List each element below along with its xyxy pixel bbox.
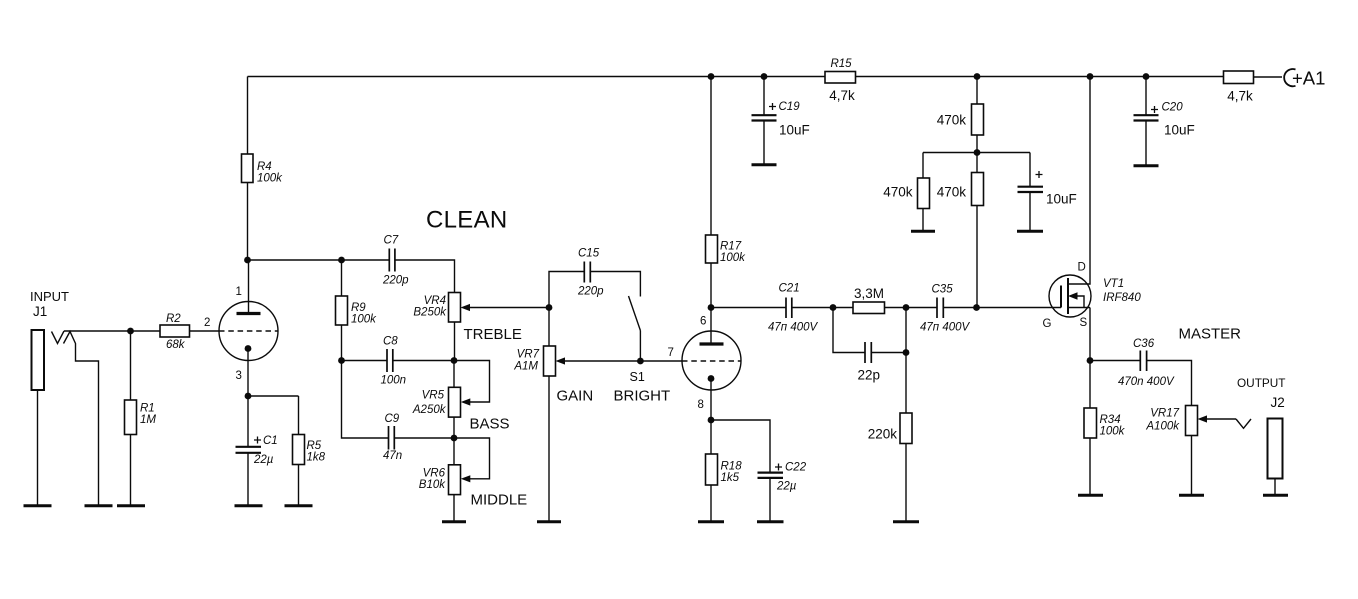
wire: junction down to R1	[130, 331, 132, 400]
resistor R2	[160, 313, 190, 351]
resistor R34	[1084, 408, 1126, 438]
wire: VR7 to ground	[548, 376, 550, 521]
node: 22p right junction	[903, 349, 910, 356]
svg-text:47п 400V: 47п 400V	[768, 322, 819, 334]
wire: C9 row left leg	[342, 361, 389, 439]
svg-text:TREBLE: TREBLE	[464, 326, 522, 343]
connector output plug V	[1236, 419, 1251, 428]
wire: anode node to C7	[248, 259, 390, 261]
wire: C20 to ground	[1145, 121, 1147, 166]
ground (C20)	[1134, 164, 1159, 167]
node: rail junction to R17	[708, 73, 715, 80]
wire: input signal to grid	[64, 330, 219, 332]
svg-text:22p: 22p	[858, 368, 881, 383]
node: C8 row left junction	[338, 357, 345, 364]
wire: C15 branch from VR7 top	[549, 272, 584, 308]
capacitor 10uF (bias)	[1018, 171, 1077, 207]
wire: 10uF to ground	[1029, 192, 1031, 231]
resistor R5	[293, 435, 326, 465]
svg-text:BRIGHT: BRIGHT	[614, 388, 671, 405]
svg-text:A1M: A1M	[513, 361, 538, 373]
ground (R1)	[117, 504, 145, 507]
wire: 22p to 220k node	[871, 352, 906, 354]
svg-text:J2: J2	[1271, 395, 1285, 410]
wire: C21 to 3,3M	[792, 307, 853, 309]
wire: S1 node to tube 2 grid	[640, 360, 682, 362]
VR7 wiper arrow from S1 node	[565, 360, 641, 362]
wire: cathode node to R5	[248, 395, 299, 397]
wire: VR6 top lead	[453, 438, 455, 465]
wire: R5 to ground	[298, 465, 300, 506]
svg-text:B250k: B250k	[413, 307, 447, 319]
svg-text:470k: 470k	[883, 185, 913, 200]
tube V2 grid (dashed)	[682, 360, 741, 362]
node: 3,3M left junction	[830, 304, 837, 311]
svg-text:47п 400V: 47п 400V	[920, 322, 971, 334]
svg-text:INPUT: INPUT	[30, 289, 69, 304]
svg-text:MASTER: MASTER	[1179, 326, 1242, 343]
wire: rail to +A1 terminal	[1254, 76, 1283, 78]
svg-text:R17: R17	[720, 241, 742, 253]
wire: C22 to ground	[769, 478, 771, 521]
svg-text:A250k: A250k	[412, 404, 447, 416]
wire: R34 to ground	[1089, 438, 1091, 495]
svg-text:R15: R15	[830, 58, 852, 70]
svg-text:C22: C22	[785, 462, 807, 474]
wire: rail to top 470k	[976, 77, 978, 105]
capacitor C21	[768, 283, 819, 334]
resistor R17	[706, 235, 747, 264]
capacitor 22p	[858, 342, 881, 383]
wire: VR17 to ground	[1191, 436, 1193, 495]
svg-text:CLEAN: CLEAN	[426, 207, 508, 234]
svg-text:G: G	[1043, 318, 1052, 330]
wire: VR4 bottom to C8 row	[454, 322, 456, 361]
node: S1 junction	[637, 358, 644, 365]
wire: anode 2 to C21	[711, 307, 786, 309]
svg-text:C8: C8	[383, 336, 398, 348]
VR6 wiper tie loop	[454, 438, 490, 479]
wire: C20 lead from rail	[1145, 77, 1147, 116]
svg-text:VR17: VR17	[1150, 408, 1179, 420]
svg-text:B10k: B10k	[419, 479, 446, 491]
ground (R5)	[285, 504, 313, 507]
potentiometer VR17	[1145, 406, 1197, 436]
ground (J1)	[24, 504, 52, 507]
wire: J2 sleeve to ground	[1274, 479, 1276, 495]
wire: C19 to ground	[763, 121, 765, 165]
ground (C22)	[757, 520, 784, 523]
svg-text:100n: 100n	[381, 375, 407, 387]
wire: source node to C36	[1090, 360, 1140, 362]
resistor R4	[242, 154, 284, 185]
svg-text:OUTPUT: OUTPUT	[1237, 376, 1286, 390]
svg-text:2: 2	[204, 317, 210, 329]
resistor 470k (middle)	[937, 173, 984, 206]
svg-text:4,7k: 4,7k	[829, 88, 855, 103]
wire: C35 to VT1 gate	[943, 307, 1061, 309]
potentiometer VR5	[412, 387, 461, 417]
wire: rail down to R4	[247, 77, 249, 155]
VR4 wiper arrow	[470, 307, 550, 309]
svg-text:68k: 68k	[166, 339, 186, 351]
node: anode junction	[244, 257, 251, 264]
node: anode 2 junction	[708, 304, 715, 311]
tube V2 cathode lead	[710, 379, 712, 421]
switch S1 blade	[629, 296, 641, 331]
svg-text:220k: 220k	[868, 427, 898, 442]
svg-text:1M: 1M	[140, 414, 156, 426]
svg-text:1: 1	[236, 286, 242, 298]
svg-text:100k: 100k	[257, 173, 283, 185]
ground (220k)	[893, 520, 919, 523]
svg-text:R18: R18	[721, 461, 743, 473]
svg-text:4,7k: 4,7k	[1227, 89, 1253, 104]
svg-text:6: 6	[700, 316, 706, 328]
svg-text:C35: C35	[932, 284, 954, 296]
svg-text:R5: R5	[307, 440, 322, 452]
wire: R5 top lead	[298, 396, 300, 435]
wire: C19 lead from rail	[763, 77, 765, 116]
wire: VR5 top lead	[453, 361, 455, 388]
wire: divider horizontal	[923, 152, 1030, 154]
capacitor C22	[758, 462, 807, 493]
node: C9 row junction	[451, 435, 458, 442]
svg-text:R4: R4	[257, 161, 272, 173]
node: rail junction to VT1 drain	[1087, 73, 1094, 80]
svg-text:470k: 470k	[937, 113, 967, 128]
node: C8 row right junction	[451, 357, 458, 364]
svg-text:100k: 100k	[351, 314, 377, 326]
svg-text:VT1: VT1	[1103, 278, 1124, 290]
terminal +A1	[1284, 68, 1325, 89]
transistor VT1	[1043, 262, 1142, 331]
node: rail junction to C20	[1143, 73, 1150, 80]
svg-text:+A1: +A1	[1292, 68, 1325, 89]
wire: R1 to ground	[130, 435, 132, 506]
wire: left 470k to ground	[922, 209, 924, 231]
svg-text:C9: C9	[385, 413, 400, 425]
wire: rail down to R17	[710, 77, 712, 236]
svg-text:22µ: 22µ	[253, 454, 274, 466]
svg-text:D: D	[1078, 262, 1086, 274]
svg-text:VR6: VR6	[423, 468, 446, 480]
resistor R1	[125, 400, 157, 435]
capacitor C9	[383, 413, 402, 462]
wire: cathode 2 to C22	[711, 420, 770, 473]
svg-text:8: 8	[698, 399, 704, 411]
svg-text:1k5: 1k5	[721, 472, 740, 484]
svg-text:VR5: VR5	[422, 390, 445, 402]
wire: +A supply rail left segment	[248, 76, 826, 78]
svg-text:C20: C20	[1162, 102, 1184, 114]
svg-text:C36: C36	[1133, 338, 1155, 350]
capacitor C1 lead	[247, 396, 249, 446]
ground (VR17)	[1179, 494, 1204, 497]
potentiometer VR4	[413, 293, 460, 323]
wire: VT1 source lead	[1089, 308, 1091, 361]
resistor R9	[336, 296, 378, 326]
wire: top 470k to divider node	[976, 135, 978, 173]
svg-text:10uF: 10uF	[1046, 192, 1077, 207]
svg-text:C19: C19	[779, 101, 801, 113]
wire: middle 470k down to gate node	[976, 206, 978, 308]
wire: R9 top lead	[341, 260, 343, 296]
svg-text:S: S	[1080, 317, 1088, 329]
svg-text:BASS: BASS	[470, 416, 510, 433]
resistor 470k (top)	[937, 104, 984, 135]
node: tone stack top junction	[338, 257, 345, 264]
tube V1 anode lead	[248, 260, 250, 312]
resistor R18	[706, 454, 743, 485]
svg-text:GAIN: GAIN	[557, 388, 594, 405]
resistor R15	[825, 58, 856, 103]
svg-text:220p: 220p	[382, 275, 409, 287]
tube V1 cathode lead	[247, 349, 249, 397]
tube V1 triode envelope	[219, 302, 278, 361]
wire: 3,3M to C35	[885, 307, 938, 309]
capacitor C1	[236, 435, 278, 466]
wire: 22p branch left leg	[833, 308, 865, 353]
svg-text:VR4: VR4	[424, 295, 446, 307]
svg-text:3,3M: 3,3M	[854, 286, 884, 301]
svg-text:10uF: 10uF	[779, 123, 810, 138]
wire: rail middle segment	[856, 76, 1224, 78]
svg-text:10uF: 10uF	[1164, 123, 1195, 138]
capacitor C15	[577, 248, 604, 298]
wire: J1 sleeve to ground	[37, 390, 39, 505]
tube V2 cathode dot	[708, 375, 715, 382]
svg-text:C15: C15	[578, 248, 600, 260]
wire: R17 to tube 2 anode	[710, 263, 712, 343]
capacitor C19	[752, 101, 810, 138]
connector J1 jack body	[32, 330, 45, 390]
connector plug body and sleeve lead	[64, 332, 99, 506]
wire: 3,3M node down through 22p node to 220k	[905, 308, 907, 414]
svg-text:7: 7	[668, 347, 674, 359]
ground (plug sleeve)	[85, 504, 113, 507]
node: source junction	[1087, 357, 1094, 364]
wire: 220k to ground	[905, 444, 907, 522]
svg-text:470k: 470k	[937, 185, 967, 200]
potentiometer VR7	[513, 346, 555, 376]
capacitor C36	[1118, 338, 1175, 388]
svg-text:100k: 100k	[1100, 426, 1126, 438]
connector plug tip V	[52, 331, 65, 344]
tube V2 triode envelope	[682, 331, 741, 390]
ground (VR7)	[537, 520, 561, 523]
wire: cathode 2 to R18	[710, 420, 712, 454]
capacitor C7	[382, 235, 409, 287]
svg-text:3: 3	[236, 370, 242, 382]
svg-text:1k8: 1k8	[307, 452, 326, 464]
svg-text:100k: 100k	[720, 252, 746, 264]
svg-text:R34: R34	[1100, 414, 1121, 426]
node: cathode 2 junction	[708, 417, 715, 424]
svg-text:22µ: 22µ	[776, 481, 797, 493]
capacitor C20	[1134, 102, 1195, 138]
tube V1 anode bar	[237, 312, 261, 315]
VR17 wiper arrow to output	[1207, 418, 1237, 420]
wire: C15 to switch S1	[590, 272, 640, 297]
svg-text:C21: C21	[779, 283, 800, 295]
wire: 10uF top lead	[1029, 153, 1031, 187]
svg-text:S1: S1	[630, 370, 645, 384]
svg-text:A100k: A100k	[1145, 421, 1180, 433]
wire: left 470k top lead	[922, 153, 924, 179]
wire: source node to R34	[1089, 361, 1091, 409]
capacitor C35	[920, 284, 971, 334]
tube V1 grid (dashed)	[219, 330, 278, 332]
wire: VR7 stem	[548, 308, 550, 347]
switch S1 bottom lead	[639, 331, 641, 362]
ground (10uF bias)	[1017, 230, 1043, 233]
node: VR7 top junction	[546, 304, 553, 311]
wire: C7 to VR4 top	[395, 260, 455, 293]
svg-text:R9: R9	[351, 302, 366, 314]
resistor 470k (left)	[883, 178, 929, 209]
wire: R18 to ground	[710, 485, 712, 521]
wire: C36 to VR17	[1147, 361, 1192, 406]
svg-text:J1: J1	[33, 304, 47, 319]
ground (VR6)	[442, 520, 466, 523]
node: rail junction to C19	[761, 73, 768, 80]
wire: C8 row left lead	[342, 360, 388, 362]
tube V1 cathode dot	[245, 345, 252, 352]
wire: R9 bottom to C8 row	[341, 325, 343, 361]
resistor 220k	[868, 413, 912, 444]
node: cathode junction	[245, 393, 252, 400]
svg-text:IRF840: IRF840	[1103, 292, 1141, 304]
wire: VT1 drain lead	[1068, 77, 1090, 285]
svg-text:220p: 220p	[577, 286, 604, 298]
node: divider junction	[974, 149, 981, 156]
wire: C8 to VR5 node	[393, 360, 454, 362]
resistor 4,7k (output dropper)	[1224, 71, 1254, 104]
svg-text:MIDDLE: MIDDLE	[471, 492, 528, 509]
svg-text:VR7: VR7	[517, 349, 540, 361]
wire: C1 to ground	[247, 453, 249, 505]
VR5 wiper tie loop	[454, 361, 490, 403]
ground (J2)	[1263, 494, 1288, 497]
svg-text:C1: C1	[263, 435, 278, 447]
ground (R18)	[698, 520, 724, 523]
connector J2 jack body	[1268, 419, 1283, 479]
svg-text:C7: C7	[384, 235, 399, 247]
wire: VR5 bottom to C9 row	[453, 417, 455, 438]
potentiometer VR6	[419, 465, 461, 495]
wire: VR6 to ground	[453, 495, 455, 521]
svg-text:R1: R1	[140, 403, 155, 415]
ground (left 470k)	[911, 230, 935, 233]
resistor 3,3M	[853, 286, 885, 314]
wire: R4 to anode node	[247, 183, 249, 261]
svg-text:47n: 47n	[383, 450, 402, 462]
node: 3,3M right junction	[903, 304, 910, 311]
capacitor C8	[381, 336, 407, 387]
tube V2 anode bar	[700, 342, 724, 345]
ground (C19)	[752, 163, 777, 166]
ground (C1)	[235, 504, 263, 507]
node: rail junction to 470k chain	[974, 73, 981, 80]
svg-text:470n 400V: 470n 400V	[1118, 376, 1175, 388]
wire: C9 to VR6 node	[394, 437, 454, 439]
ground (R34)	[1078, 494, 1103, 497]
svg-text:R2: R2	[166, 313, 181, 325]
node: input junction R1	[127, 328, 134, 335]
node: gate junction	[973, 304, 980, 311]
